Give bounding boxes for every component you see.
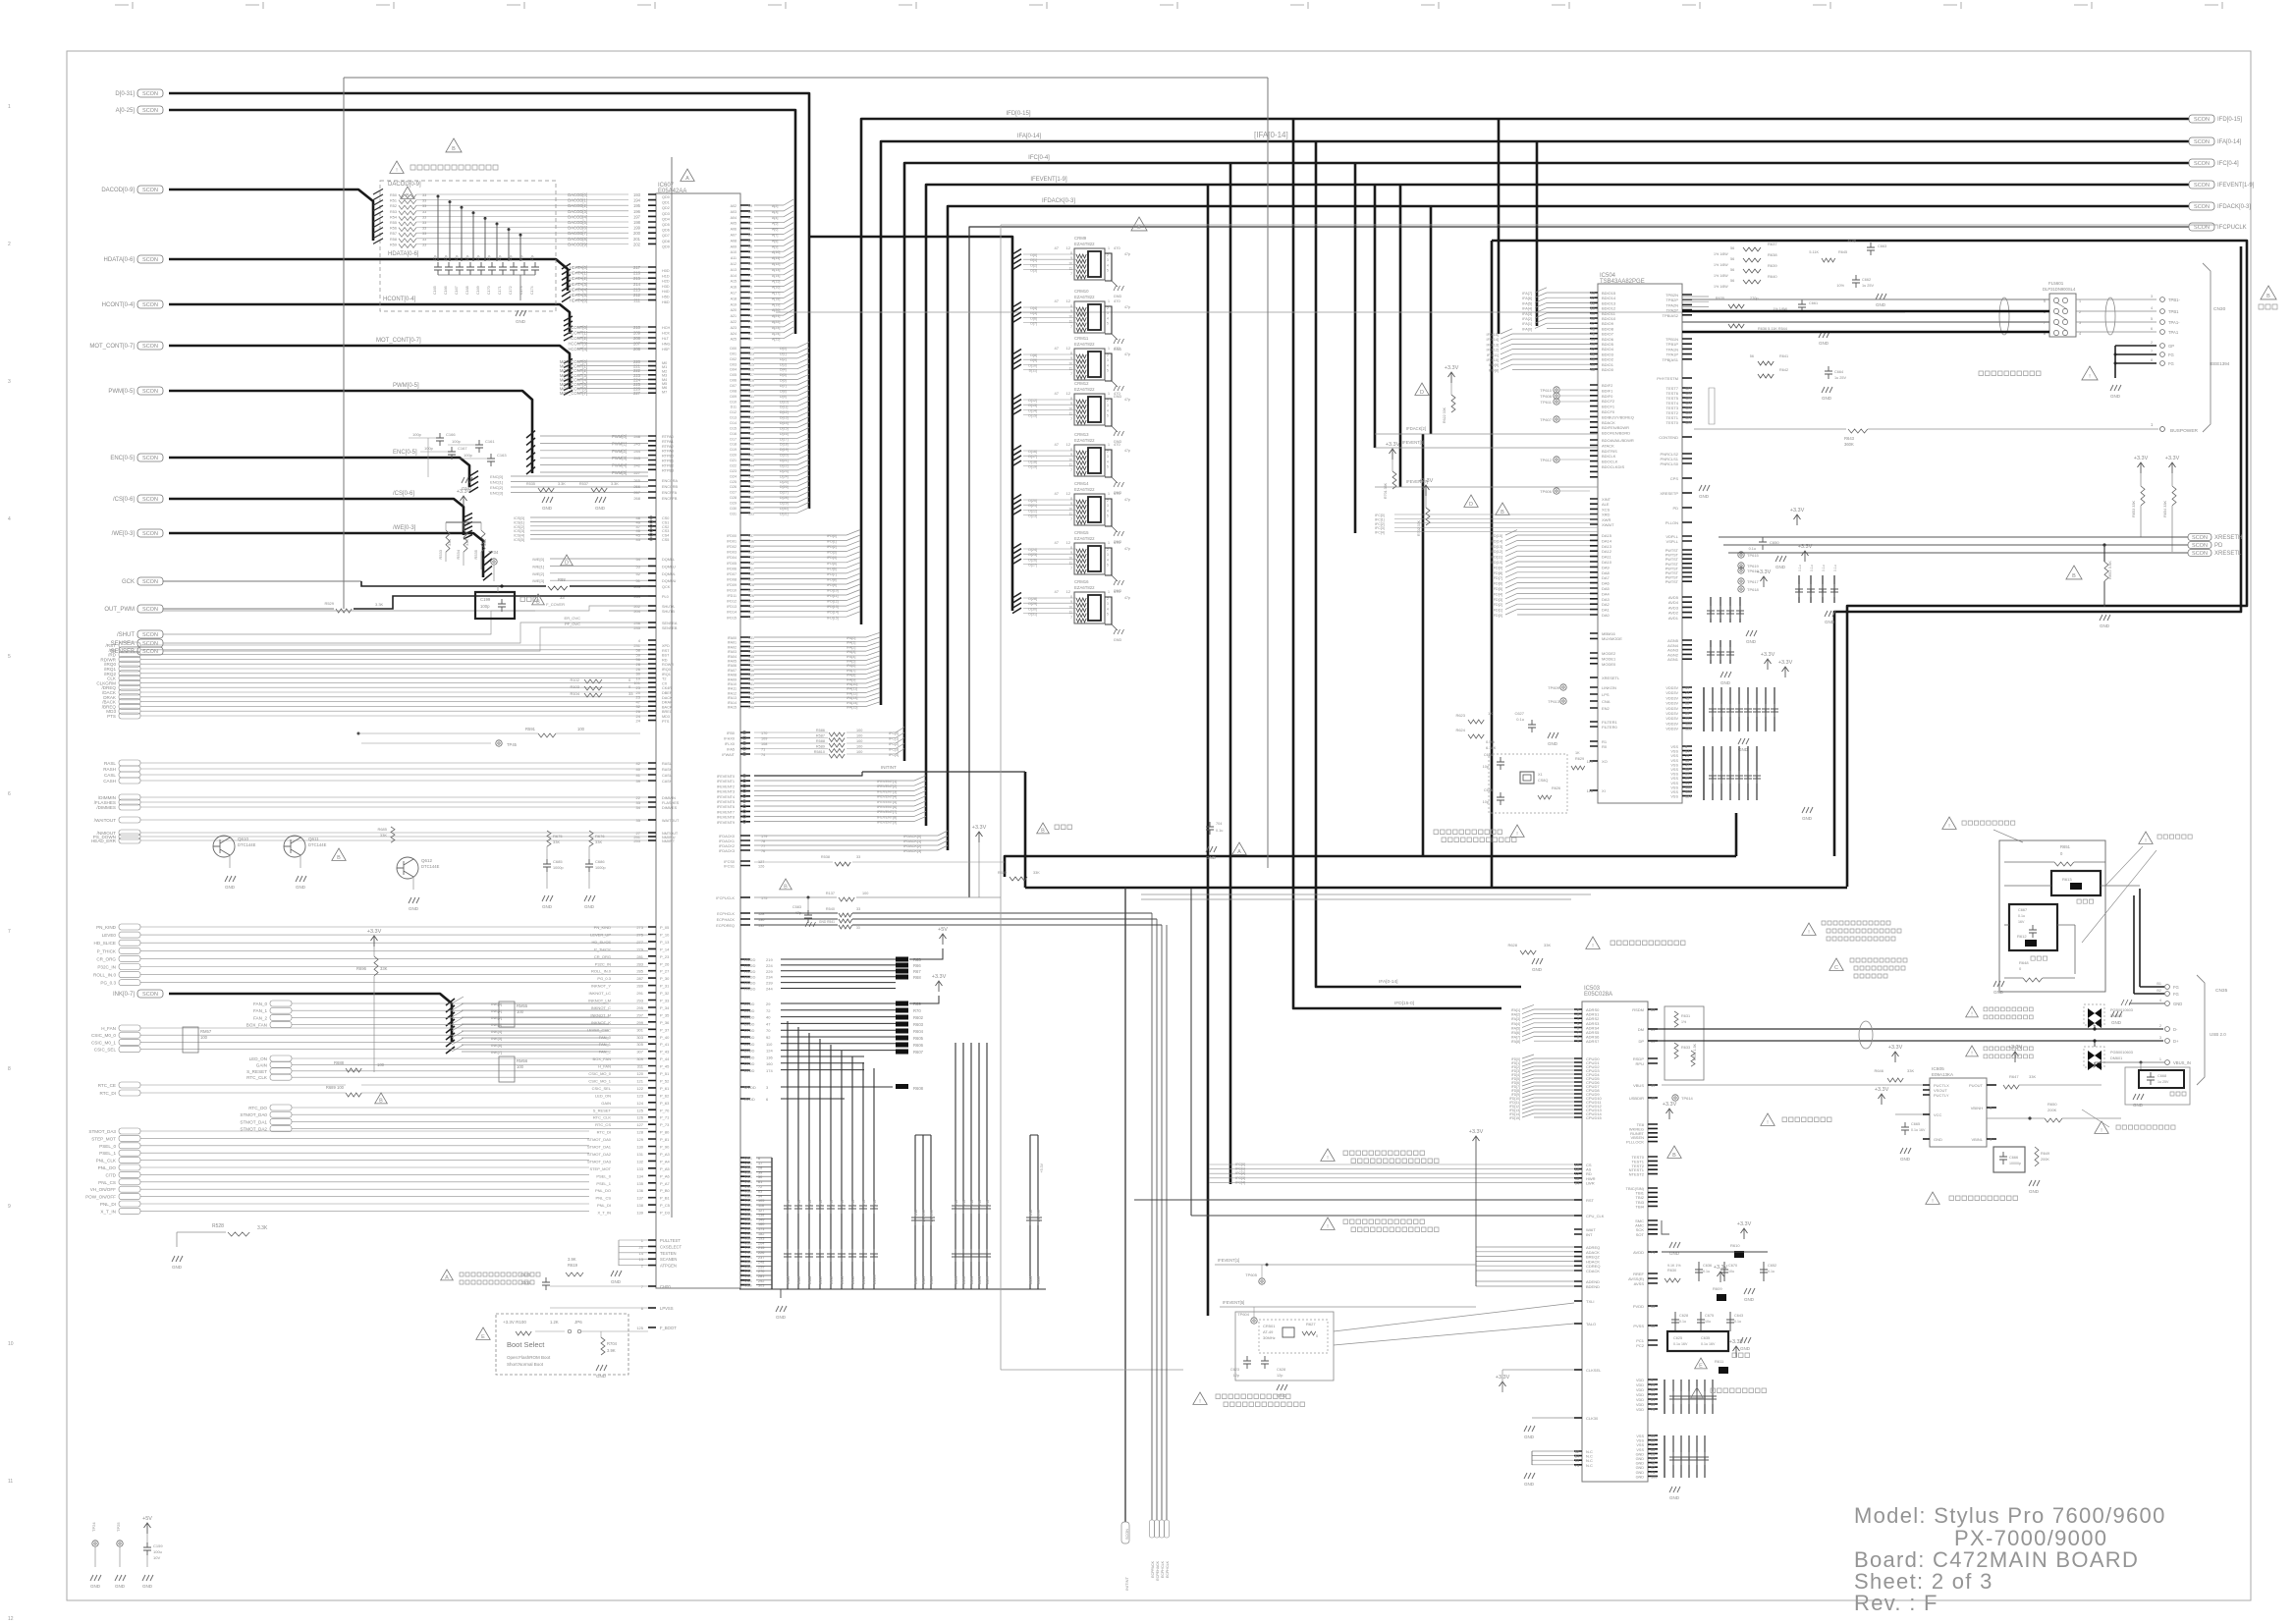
IC607 bottom-left pin rows P_xx [648,927,656,1213]
svg-text:P_A6: P_A6 [660,1173,671,1178]
IC504 PWTST pins with testpoints [1682,550,1692,581]
svg-text:206: 206 [633,347,641,352]
svg-text:470: 470 [1114,589,1120,594]
svg-text:153: 153 [748,512,754,515]
VBUS_IN wire [2095,1061,2164,1063]
bus IFDACK[0-3] [948,206,2189,850]
svg-text:D[5]: D[5] [1030,311,1037,315]
svg-text:IFEVENT[5]: IFEVENT[5] [1223,1300,1244,1305]
svg-text:P_80: P_80 [660,1130,670,1135]
svg-text:IFA[12]: IFA[12] [846,691,857,695]
svg-text:12: 12 [1066,442,1071,447]
svg-text:33K: 33K [380,833,387,838]
R635 R636 network [1728,304,1744,308]
svg-text:IFB0: IFB0 [727,731,735,735]
svg-text:212: 212 [633,293,641,298]
svg-text:TP608: TP608 [1540,394,1553,399]
svg-text:64: 64 [1575,1459,1579,1463]
svg-text:VSS: VSS [1670,795,1678,799]
svg-text:IFD[14]: IFD[14] [827,611,839,615]
GND wire CN35 [2129,1002,2164,1004]
svg-text:47: 47 [1055,391,1060,396]
wire SHUTA F_COVER [163,610,535,612]
svg-text:IFA[7]: IFA[7] [1522,292,1532,296]
svg-text:A[22]: A[22] [772,320,780,324]
IC607 LVDD pins and R602-R607 [740,1003,750,1070]
svg-text:GND: GND [172,1265,183,1270]
svg-text:116: 116 [758,1204,764,1208]
svg-text:0.1u: 0.1u [819,1200,823,1207]
svg-text:GND: GND [1548,741,1558,746]
svg-text:E: E [481,1334,485,1340]
svg-text:56: 56 [1730,268,1734,272]
svg-text:76: 76 [761,849,765,853]
svg-text:26: 26 [639,1244,644,1249]
svg-text:128: 128 [748,379,754,383]
svg-text:IFD[0]: IFD[0] [1493,614,1502,618]
svg-text:HD_SLICE: HD_SLICE [94,941,116,946]
svg-text:A09: A09 [731,244,737,248]
svg-text:33K: 33K [1907,1068,1914,1073]
svg-text:A10: A10 [731,250,737,254]
tag IFCPUCLK [2189,223,2214,231]
svg-text:BDIF0: BDIF0 [1602,394,1613,399]
svg-text:VSS: VSS [744,1185,752,1189]
svg-text:LVDD: LVDD [744,1042,754,1047]
svg-text:281: 281 [758,1274,764,1278]
svg-text:52: 52 [1575,1450,1579,1454]
left tag DACOD[0-9] [137,186,163,193]
svg-text:0.1u: 0.1u [851,1200,855,1207]
svg-text:10: 10 [1068,314,1072,318]
svg-text:ECPHCLK: ECPHCLK [717,912,735,916]
svg-text:IFD[10]: IFD[10] [1491,561,1502,565]
svg-text:D[13]: D[13] [1028,404,1037,407]
svg-text:47: 47 [766,1021,771,1026]
svg-text:DACOD[8]: DACOD[8] [568,237,587,242]
svg-text:GND: GND [1699,494,1710,499]
IC504 LINKON LPS CNA EN2 pins [1590,687,1598,708]
svg-text:85: 85 [1685,712,1689,716]
svg-text:128: 128 [1685,728,1691,731]
IC503 right VSS GND pins with caps [1648,1435,1658,1476]
svg-text:R685: R685 [377,827,387,832]
svg-text:VDD3V: VDD3V [1665,702,1678,706]
svg-text:IFA14: IFA14 [728,701,737,705]
svg-text:8: 8 [1577,1036,1579,1040]
svg-text:DACOD[3]: DACOD[3] [568,209,587,214]
svg-text:47: 47 [1055,540,1060,545]
svg-text:VDD: VDD [1636,1393,1644,1397]
svg-text:ENC[1]: ENC[1] [490,480,503,485]
svg-text:R586: R586 [816,729,825,732]
svg-text:LVDD: LVDD [744,1055,754,1059]
svg-text:P_C5: P_C5 [660,1203,671,1208]
svg-text:C686: C686 [595,859,605,864]
svg-text:QD7: QD7 [662,234,670,238]
svg-text:2: 2 [2151,341,2153,345]
svg-text:1K: 1K [1575,751,1580,755]
bus DACOD[0-9] [169,189,373,241]
svg-text:D[12]: D[12] [1028,399,1037,403]
svg-text:DACOD[0]: DACOD[0] [568,192,587,197]
svg-text:7: 7 [1070,567,1072,570]
svg-text:12: 12 [1575,1172,1579,1176]
svg-text:124: 124 [1685,795,1691,799]
IC503 right TEST pins [1648,1157,1658,1174]
svg-text:140: 140 [748,677,754,681]
svg-text:D[29]: D[29] [1028,602,1037,606]
svg-text:33: 33 [856,855,860,859]
svg-text:R634 1.5K: R634 1.5K [1693,1043,1697,1060]
svg-text:Open:FlashROM Boot: Open:FlashROM Boot [507,1355,551,1360]
bus HDATA[0-6] [169,259,568,291]
svg-text:IFD[3]: IFD[3] [827,551,837,555]
svg-text:GND: GND [1876,302,1886,307]
resistor R685 33K [391,827,395,842]
wire INITINT [862,771,1025,773]
svg-text:RTC_CLK: RTC_CLK [593,1115,611,1120]
svg-text:128: 128 [636,1130,643,1135]
svg-text:INITINT: INITINT [1124,1576,1129,1591]
svg-text:33: 33 [422,199,426,203]
svg-text:TP611: TP611 [1541,400,1553,405]
svg-text:PVDD: PVDD [1633,1304,1644,1309]
svg-text:RASL: RASL [662,762,672,766]
svg-text:IFD[15]: IFD[15] [827,616,839,620]
svg-text:PG_0.3: PG_0.3 [100,981,116,986]
svg-text:VDD: VDD [1636,1403,1644,1407]
svg-text:244: 244 [633,449,640,454]
svg-text:VSS: VSS [744,1162,752,1165]
svg-text:C165: C165 [433,286,437,295]
IC503 right SMC AMC SCK SOT pins [1648,1220,1658,1234]
resistors R102 R103 R104 [584,679,602,683]
svg-text:P_THICK: P_THICK [97,948,117,953]
svg-text:BDOFEN/BDRD: BDOFEN/BDRD [1602,431,1630,436]
svg-text:DA12: DA12 [1602,549,1612,554]
svg-text:+3.3V: +3.3V [1778,660,1793,666]
svg-text:3.3K: 3.3K [558,482,566,486]
svg-text:A[9]: A[9] [772,244,778,248]
svg-text:IFC[3]: IFC[3] [1235,1176,1245,1180]
svg-text:D[19]: D[19] [780,448,789,452]
svg-text:4: 4 [2159,999,2161,1002]
svg-text:IFA[1]: IFA[1] [1511,1008,1520,1012]
svg-text:HDATA[5]: HDATA[5] [570,293,587,298]
svg-text:39: 39 [758,1170,762,1174]
capacitors C166 C161 C163 on PWM [409,437,440,439]
svg-text:47p: 47p [498,255,502,261]
svg-text:61: 61 [1651,1398,1655,1402]
svg-text:41: 41 [636,773,641,778]
svg-text:136: 136 [748,540,754,544]
svg-text:P_63: P_63 [660,1101,670,1106]
svg-text:D27: D27 [730,491,737,495]
svg-text:47: 47 [1055,298,1060,303]
svg-text:C635: C635 [1701,1336,1710,1340]
svg-text:R70: R70 [913,1008,921,1013]
svg-text:38: 38 [1591,367,1596,372]
svg-text:GND: GND [1114,638,1122,642]
svg-text:196: 196 [633,209,641,214]
svg-text:/DIMMES: /DIMMES [96,805,116,810]
svg-text:8: 8 [1070,546,1072,550]
svg-text:LED_ON: LED_ON [595,1093,611,1098]
svg-text:7: 7 [1070,325,1072,329]
IC607 left pin rows HCONT [648,327,656,349]
svg-text:IFC[2]: IFC[2] [1235,1171,1245,1175]
svg-text:47p: 47p [433,255,437,261]
svg-text:H0D: H0D [662,269,670,273]
svg-text:5: 5 [1107,465,1109,469]
svg-text:292: 292 [758,1279,764,1283]
svg-text:1: 1 [2159,1057,2161,1061]
svg-text:SCON: SCON [2194,204,2210,210]
svg-text:XWAIT: XWAIT [1602,522,1614,527]
svg-text:P_51: P_51 [660,1071,670,1076]
svg-text:53: 53 [636,564,641,568]
svg-text:Boot Select: Boot Select [507,1340,545,1349]
svg-text:VSS: VSS [744,1166,752,1170]
svg-text:RD: RD [662,658,668,662]
svg-text:12p: 12p [1233,1374,1239,1378]
svg-text:P_23: P_23 [660,954,670,959]
svg-text:R606: R606 [913,1043,924,1048]
svg-text:GND: GND [1636,1457,1645,1461]
svg-text:0.1u: 0.1u [1833,565,1837,571]
svg-text:VBINH: VBINH [1971,1106,1983,1110]
svg-text:P_90: P_90 [660,1145,670,1150]
svg-text:244: 244 [766,987,773,992]
svg-text:8: 8 [1070,497,1072,501]
svg-text:7: 7 [1070,616,1072,620]
svg-text:GND: GND [2173,1001,2182,1006]
svg-text:75: 75 [748,297,752,300]
svg-text:H5D: H5D [662,296,670,299]
svg-text:135: 135 [748,545,754,549]
svg-text:IFA00: IFA00 [728,636,737,640]
IC503 left CPUD pins with IFD echelon [1574,1058,1582,1117]
svg-text:5: 5 [1577,1022,1579,1026]
svg-text:1u 25V: 1u 25V [2157,1080,2169,1084]
svg-text:XPD: XPD [662,644,670,648]
svg-text:VSS: VSS [744,1256,752,1260]
svg-text:D[25]: D[25] [1028,553,1037,557]
svg-text:IFD[10]: IFD[10] [827,589,839,593]
svg-text:CLK30: CLK30 [1586,1416,1599,1421]
svg-text:P_A7: P_A7 [660,1181,671,1186]
svg-text:GND: GND [1524,1435,1535,1439]
svg-text:X1: X1 [1538,773,1543,777]
svg-text:IFA02: IFA02 [728,645,737,649]
svg-text:HEAD_ERR: HEAD_ERR [91,839,117,843]
svg-text:BDITRIS: BDITRIS [1602,449,1617,454]
svg-text:H1D: H1D [662,274,670,278]
svg-text:125: 125 [748,362,754,366]
svg-text:IFEVENT0: IFEVENT0 [717,775,735,779]
svg-text:D[11]: D[11] [780,406,788,409]
svg-text:IFA[2]: IFA[2] [1522,317,1532,321]
svg-text:C628: C628 [1277,1368,1285,1372]
svg-text:RSDM: RSDM [1632,1007,1644,1012]
svg-text:3: 3 [1107,258,1109,262]
svg-text:C625: C625 [1673,1336,1682,1340]
svg-text:HVDD: HVDD [744,963,755,968]
svg-text:132: 132 [748,400,754,404]
svg-text:IFD01: IFD01 [727,540,737,544]
capacitor C663 and R645 [1867,243,1875,255]
svg-text:67: 67 [748,250,752,254]
svg-text:SCON: SCON [142,607,158,613]
crystal CR501 circuit box [1235,1312,1334,1380]
svg-text:PNL_CS: PNL_CS [98,1180,116,1185]
svg-text:VDD3V: VDD3V [1665,728,1678,731]
svg-text:IFDACK[3]: IFDACK[3] [903,849,921,853]
IC504 DA pins with IFD echelon [1590,535,1598,615]
svg-text:IFA[14]: IFA[14] [846,701,857,705]
svg-text:124: 124 [1685,402,1691,406]
svg-text:9: 9 [1070,256,1072,260]
svg-text:RTC_CLK: RTC_CLK [246,1075,268,1080]
capacitor C199 100p box [475,592,515,619]
svg-text:HCONT[2]: HCONT[2] [568,336,587,341]
svg-text:VSS: VSS [744,1251,752,1255]
wire SENSEB step [163,627,648,651]
svg-text:131: 131 [748,567,754,570]
svg-text:59: 59 [748,204,752,208]
connector CN35 USB pins [2165,985,2170,990]
svg-text:QD6: QD6 [662,229,670,233]
svg-text:TP606: TP606 [1540,489,1553,494]
svg-text:R528: R528 [212,1223,224,1229]
svg-text:IFA[7]: IFA[7] [1511,1036,1520,1040]
svg-text:HVDD: HVDD [744,957,755,962]
svg-text:146: 146 [748,474,754,478]
svg-text:R696: R696 [356,966,367,971]
svg-text:47p: 47p [1124,498,1130,502]
svg-text:A[4]: A[4] [772,216,778,220]
svg-text:4: 4 [8,516,11,522]
svg-text:IFEVENT3: IFEVENT3 [717,790,735,794]
svg-text:TPA1-: TPA1- [2168,320,2180,325]
svg-text:R629: R629 [1575,757,1584,761]
svg-text:D18: D18 [730,443,737,447]
svg-text:A07: A07 [731,234,737,238]
svg-text:118: 118 [1587,788,1594,793]
svg-text:R607: R607 [913,1050,924,1055]
svg-text:AVSS: AVSS [1634,1281,1645,1286]
svg-text:7: 7 [1070,468,1072,472]
svg-text:136: 136 [748,421,754,425]
svg-text:B: B [337,855,341,861]
svg-text:TPB1-: TPB1- [2168,298,2180,302]
svg-text:CX: CX [662,681,668,685]
svg-text:DACK: DACK [662,696,673,700]
svg-text:GND: GND [409,906,419,911]
svg-text:IFD[4]: IFD[4] [827,556,837,560]
svg-text:A[11]: A[11] [772,256,780,260]
note D+/D- wiring [1802,923,1816,935]
svg-text:C167: C167 [458,446,467,451]
svg-text:P_A4: P_A4 [660,1159,671,1164]
svg-text:129: 129 [748,577,754,581]
svg-text:SCON: SCON [142,992,158,998]
svg-text:HCONT[0]: HCONT[0] [568,325,587,330]
svg-text:GND: GND [1802,816,1813,821]
svg-text:IFA[0-14]: IFA[0-14] [2217,139,2242,145]
svg-text:WAITOUT: WAITOUT [662,819,680,823]
svg-text:RM57: RM57 [200,1029,212,1034]
svg-text:B: B [784,884,788,890]
svg-text:ECPHACK: ECPHACK [717,918,736,922]
svg-text:A04: A04 [731,216,737,220]
resistors R623 R624 [1468,720,1484,724]
svg-text:CRM10: CRM10 [1074,289,1089,294]
svg-text:175: 175 [761,896,767,900]
+3.3V rail feeding pull network [1473,1136,1480,1147]
svg-text:/WE[0-3]: /WE[0-3] [393,525,416,531]
svg-text:D03: D03 [730,362,737,366]
svg-text:3: 3 [1107,358,1109,362]
svg-text:TPA1: TPA1 [2168,330,2179,335]
svg-text:209: 209 [633,331,641,336]
svg-text:72: 72 [1685,707,1689,711]
svg-text:108: 108 [761,742,767,746]
svg-text:PC2: PC2 [1636,1343,1645,1348]
FG wires thick [2134,889,2164,994]
svg-text:P_31: P_31 [660,984,670,989]
svg-text:HCK: HCK [662,332,670,336]
wire IFCPUCLK [969,227,2189,897]
svg-text:DA2: DA2 [1602,602,1611,607]
IC503 right TE8 group [1648,1124,1658,1142]
svg-text:P_A5: P_A5 [660,1166,671,1171]
svg-text:VSS: VSS [744,1204,752,1208]
svg-text:GND: GND [142,1584,153,1589]
svg-text:GND: GND [776,1315,787,1320]
svg-text:E: E [1699,1363,1703,1369]
svg-text:R137: R137 [826,892,835,895]
svg-text:3.9K: 3.9K [568,1257,576,1262]
svg-text:A02: A02 [731,204,737,208]
svg-text:287: 287 [636,976,643,981]
svg-text:CDACK: CDACK [1586,1269,1600,1273]
svg-text:PWTST: PWTST [1665,571,1679,575]
note back pattern [2139,832,2153,843]
svg-text:OUT_PWM: OUT_PWM [104,607,135,613]
resistors R535b R537 [538,488,554,492]
svg-text:100: 100 [1651,1475,1657,1479]
svg-text:CS0: CS0 [662,516,669,520]
echelon into R50 rows [373,189,383,244]
svg-text:R67: R67 [913,969,921,974]
svg-text:136: 136 [766,1055,773,1059]
svg-text:IFA[5]: IFA[5] [1511,1026,1520,1030]
svg-text:PNL_DO: PNL_DO [595,1188,611,1193]
svg-text:IFD[6]: IFD[6] [1493,582,1502,586]
resistor R704 [600,1331,602,1337]
svg-text:125: 125 [748,600,754,604]
svg-text:242: 242 [633,463,640,468]
bus end fan CS [464,514,472,539]
svg-text:47p: 47p [509,255,513,261]
svg-text:IFD[8]: IFD[8] [1489,368,1499,372]
svg-text:R636 5.11K R544: R636 5.11K R544 [1758,327,1787,331]
IC503 RST CPU_CLK pins [1574,1199,1582,1201]
svg-text:100: 100 [856,739,862,743]
svg-text:IFD11: IFD11 [727,594,737,598]
